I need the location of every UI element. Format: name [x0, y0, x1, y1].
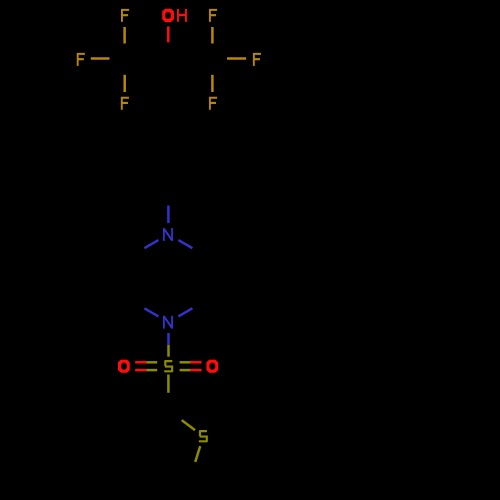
wire S=O left double bond upper line (olive half)	[146, 361, 157, 364]
wire N1-ring C bond lower-right (blue half)	[178, 240, 192, 248]
atom label S sulfonyl sulfur	[164, 360, 173, 372]
wire N1-ring C bond lower-left (blue half)	[144, 240, 158, 248]
atom label F4 far-right fluorine	[253, 53, 261, 66]
wire C-F2 bond (gold half)	[211, 27, 214, 44]
wire C-F4 bond (gold half)	[227, 57, 246, 60]
wire N2-ring C bond upper-left (blue half)	[144, 308, 158, 316]
wire C-F1 bond (gold half)	[123, 27, 126, 44]
wire C2-O hydroxyl bond (red half)	[167, 26, 170, 42]
atom label H of hydroxyl OH	[177, 9, 187, 22]
wire C2-S1 thiophene ring bond (olive half)	[182, 420, 195, 430]
wire S-C2 thiophene bond (olive half)	[167, 375, 170, 393]
wire S=O left double bond upper line (red half)	[135, 361, 146, 364]
atom label F6 lower-right fluorine	[209, 97, 217, 110]
wire S=O right double bond lower line (olive half)	[180, 369, 191, 372]
atom label N2 piperazine bottom nitrogen	[163, 316, 173, 329]
wire S=O left double bond lower line (red half)	[135, 369, 146, 372]
wire S=O right double bond upper line (red half)	[190, 361, 201, 364]
wire S1-C5 thiophene ring bond (olive half)	[195, 446, 200, 462]
wire chain C-N1 bond (blue half)	[167, 206, 170, 224]
wire C-F5 bond (gold half)	[123, 75, 126, 92]
wire N2-ring C bond upper-right (blue half)	[178, 308, 192, 316]
atom label F2 upper-right fluorine	[209, 9, 217, 22]
wire C-F6 bond (gold half)	[211, 75, 214, 92]
wire S=O right double bond upper line (olive half)	[180, 361, 191, 364]
wire S=O right double bond lower line (red half)	[190, 369, 201, 372]
atom label F3 far-left fluorine	[77, 53, 85, 66]
wire S=O left double bond lower line (olive half)	[146, 369, 157, 372]
atom label O of hydroxyl OH	[162, 9, 174, 22]
atom label F1 upper-left fluorine	[121, 9, 129, 22]
wire C-F3 bond (gold half)	[91, 57, 110, 60]
atom label N1 piperazine top nitrogen	[163, 228, 173, 241]
atom label S1 thiophene ring sulfur	[199, 430, 208, 442]
atom label F5 lower-left fluorine	[121, 97, 129, 110]
wire N2-S sulfonamide bond (blue half)	[167, 333, 170, 345]
wire N2-S sulfonamide bond (olive half)	[167, 345, 170, 357]
atom label O left sulfonyl oxygen	[118, 360, 130, 373]
atom label O right sulfonyl oxygen	[206, 360, 218, 373]
